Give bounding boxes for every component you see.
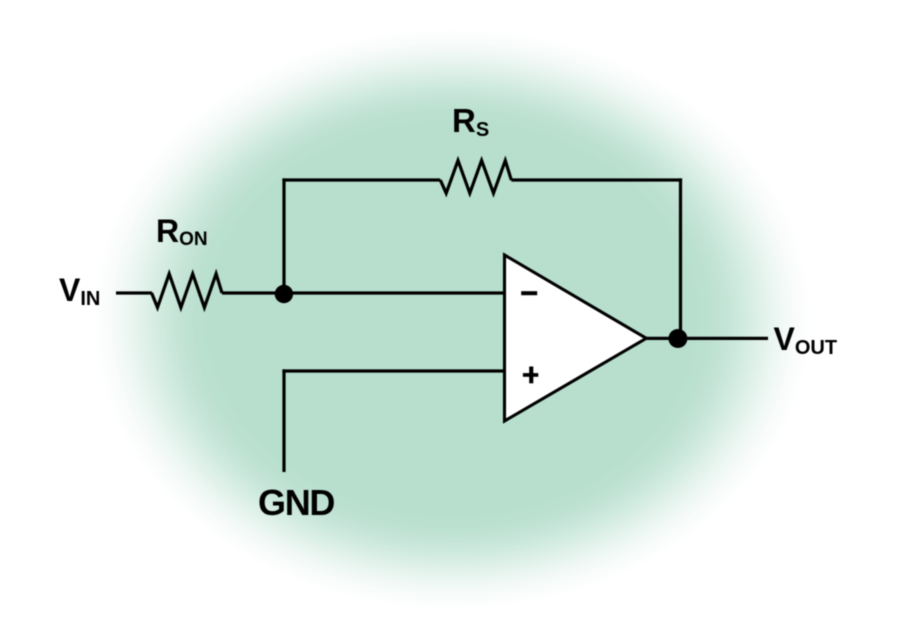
node B output junction dot <box>668 329 687 348</box>
op-amp non-inverting pin plus sign <box>523 367 538 384</box>
label GND <box>258 485 334 521</box>
label V_IN <box>59 274 100 309</box>
wire op-amp output to V_OUT <box>646 337 768 340</box>
label V_OUT <box>774 323 838 358</box>
wire feedback top right segment <box>511 178 682 181</box>
label R_ON <box>156 215 208 249</box>
label R_S <box>452 104 489 140</box>
resistor R_S <box>440 161 511 194</box>
wire feedback top left segment <box>282 178 440 181</box>
wire V_IN lead <box>116 291 152 294</box>
wire node A up to feedback <box>282 178 285 294</box>
wire GND vertical <box>282 369 285 472</box>
op-amp U1 <box>505 255 647 421</box>
wire feedback down to output node <box>679 178 682 338</box>
node A junction dot <box>275 285 293 303</box>
wire ground lead horizontal to non-inverting input <box>282 369 504 372</box>
resistor R_ON <box>152 274 222 308</box>
op-amp inverting pin minus sign <box>521 291 537 295</box>
wire R_ON to op-amp inverting input <box>222 291 505 294</box>
